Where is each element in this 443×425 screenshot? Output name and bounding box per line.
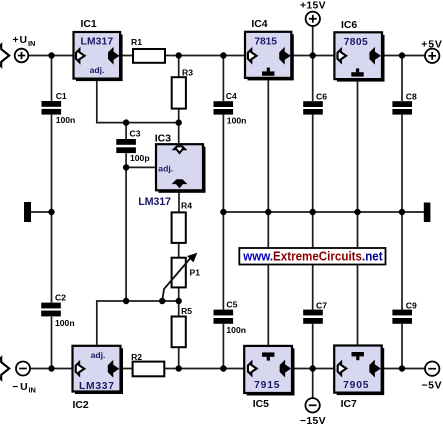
- junction -15V rail node: [310, 365, 316, 371]
- svg-text:7805: 7805: [344, 37, 368, 48]
- svg-text:+15V: +15V: [300, 1, 326, 12]
- junction P1 wiper node: [159, 298, 165, 304]
- svg-text:IC3: IC3: [155, 133, 171, 144]
- resistor R1: [133, 49, 165, 63]
- wire top rail IC6 to +5V: [382, 55, 425, 57]
- wire IC6-IC7 ground column: [357, 79, 359, 346]
- svg-text:R4: R4: [181, 201, 192, 211]
- capacitor C2: [41, 303, 61, 309]
- svg-text:IC2: IC2: [73, 400, 89, 411]
- wire R3 connect: [178, 56, 180, 78]
- svg-text:C5: C5: [226, 300, 237, 310]
- potentiometer P1: [172, 258, 186, 288]
- wire +15V/C6/C7/-15V column: [312, 26, 314, 101]
- svg-text:adj.: adj.: [90, 65, 105, 75]
- junction C8 / +5V node: [399, 52, 405, 58]
- junction +15V rail node: [310, 52, 316, 58]
- junction C8/C9 0V node: [399, 209, 405, 215]
- svg-text:C8: C8: [406, 91, 417, 101]
- IC3 input arrow: [174, 146, 185, 153]
- wire 0V rail: [223, 211, 424, 213]
- junction -U input node: [48, 365, 54, 371]
- junction C4/C5 0V node: [220, 209, 226, 215]
- svg-text:IN: IN: [28, 39, 35, 48]
- wire adj rail: [97, 301, 179, 346]
- wire P1 to R5: [178, 287, 180, 316]
- svg-text:IC6: IC6: [341, 20, 357, 31]
- terminal -UIN: [16, 362, 30, 376]
- junction P1 / R5 node: [176, 298, 182, 304]
- watermark box: [239, 248, 385, 265]
- wire R4 to P1: [178, 243, 180, 258]
- IC7 output arrow: [370, 362, 379, 375]
- junction C3 bottom / IC3 adj node: [123, 164, 129, 170]
- svg-text:C6: C6: [316, 91, 327, 101]
- regulator IC1 LM317: [76, 35, 123, 82]
- svg-text:C4: C4: [226, 91, 237, 101]
- svg-text:P1: P1: [190, 268, 201, 278]
- svg-text:100p: 100p: [130, 153, 150, 163]
- wire top rail IC4 to IC6: [291, 55, 335, 57]
- input arrow +U: [0, 45, 9, 67]
- svg-text:C7: C7: [316, 300, 327, 310]
- svg-text:100n: 100n: [227, 115, 247, 125]
- svg-text:100n: 100n: [226, 325, 246, 335]
- IC6 ground pin: [351, 72, 363, 76]
- capacitor C9: [392, 310, 412, 316]
- junction IC4/IC5 ground 0V node: [265, 209, 271, 215]
- terminal +UIN: [15, 49, 29, 63]
- svg-text:IC7: IC7: [341, 399, 357, 410]
- capacitor C8: [392, 101, 412, 107]
- wire bottom rail IC5 to IC7: [292, 368, 335, 370]
- svg-text:7905: 7905: [343, 380, 369, 391]
- wire left column: [51, 56, 53, 102]
- IC6 input arrow: [338, 49, 347, 62]
- IC6 output arrow: [371, 49, 380, 62]
- resistor R5: [172, 317, 186, 348]
- svg-text:LM317: LM317: [138, 196, 171, 208]
- IC2 input arrow: [76, 362, 85, 375]
- IC4 output arrow: [280, 49, 289, 62]
- svg-text:C9: C9: [406, 300, 417, 310]
- svg-text:−5V: −5V: [422, 381, 442, 392]
- junction C6/C7 0V node: [310, 209, 316, 215]
- svg-text:LM317: LM317: [81, 37, 114, 48]
- svg-text:IN: IN: [29, 386, 36, 395]
- IC1 output arrow: [109, 49, 118, 62]
- IC3 output arrow: [174, 180, 185, 187]
- svg-text:www.ExtremeCircuits.net: www.ExtremeCircuits.net: [242, 250, 383, 264]
- svg-text:+U: +U: [13, 35, 28, 46]
- svg-text:7815: 7815: [254, 37, 277, 48]
- capacitor C1: [42, 101, 62, 107]
- svg-text:C1: C1: [56, 91, 67, 101]
- wire bottom rail: [30, 368, 245, 370]
- terminal -15V: [305, 398, 319, 412]
- junction C4 top node: [220, 52, 226, 58]
- svg-text:LM337: LM337: [79, 381, 114, 392]
- junction IC1 adj / C3 node: [123, 119, 129, 125]
- capacitor C3: [116, 139, 136, 145]
- junction R5 bottom node: [176, 365, 182, 371]
- IC5 ground pin: [262, 352, 274, 356]
- svg-text:IC1: IC1: [81, 19, 97, 30]
- wire IC1 adj: [97, 79, 179, 123]
- svg-text:−15V: −15V: [300, 416, 326, 425]
- junction C9 / -5V node: [399, 365, 405, 371]
- regulator IC3 LM317: [159, 147, 206, 193]
- IC4 input arrow: [248, 49, 257, 62]
- wire C8/C9 column: [401, 56, 403, 102]
- IC1 input arrow: [76, 49, 85, 62]
- capacitor C5: [214, 310, 234, 316]
- IC4 ground pin: [262, 71, 274, 75]
- svg-text:R1: R1: [131, 37, 142, 47]
- wire IC3 out to R4: [178, 190, 180, 212]
- IC7 input arrow: [338, 362, 347, 375]
- capacitor C4: [214, 101, 234, 107]
- svg-text:R3: R3: [182, 67, 193, 77]
- svg-text:adj.: adj.: [158, 163, 173, 173]
- svg-text:IC4: IC4: [251, 19, 267, 30]
- junction C5 bottom node: [220, 365, 226, 371]
- svg-text:7915: 7915: [254, 380, 280, 391]
- wire bottom rail IC7 to -5V: [381, 368, 425, 370]
- resistor R3: [172, 77, 186, 108]
- terminal -5V: [425, 362, 439, 376]
- regulator IC2 LM337: [75, 348, 123, 394]
- capacitor C6: [303, 101, 323, 107]
- resistor R4: [172, 212, 186, 243]
- svg-text:100n: 100n: [56, 115, 76, 125]
- junction +U input node: [48, 52, 54, 58]
- regulator IC7 7905: [337, 348, 385, 395]
- IC2 output arrow: [109, 362, 118, 375]
- regulator IC4 7815: [248, 34, 294, 80]
- svg-text:C3: C3: [130, 128, 141, 138]
- wire R5 to bottom rail: [178, 347, 180, 368]
- wire IC4-IC5 ground column: [267, 78, 269, 346]
- regulator IC6 7805: [337, 35, 385, 82]
- svg-text:R5: R5: [181, 306, 192, 316]
- junction R3 bottom / IC3 input node: [176, 119, 182, 125]
- svg-text:IC5: IC5: [253, 399, 269, 410]
- junction 0V left tap node: [48, 209, 54, 215]
- wire C4/C5 column: [222, 56, 224, 102]
- P1 wiper arrowhead: [187, 253, 197, 263]
- junction IC6/IC7 ground 0V node: [354, 209, 360, 215]
- junction R1 output / R3 top node: [176, 52, 182, 58]
- regulator IC5 7915: [247, 348, 295, 395]
- svg-text:C2: C2: [55, 292, 66, 302]
- wire C3 column: [125, 123, 127, 139]
- IC5 output arrow: [281, 362, 290, 375]
- resistor R2: [133, 362, 165, 377]
- svg-text:adj.: adj.: [91, 350, 106, 360]
- ground bar right (0V connector): [424, 203, 431, 223]
- svg-text:R2: R2: [131, 352, 142, 362]
- P1 wiper wire: [162, 258, 190, 301]
- svg-text:100n: 100n: [55, 318, 75, 328]
- wire IC3 adj: [126, 166, 156, 168]
- junction adj rail / C3 column node: [123, 298, 129, 304]
- svg-text:−U: −U: [12, 382, 28, 393]
- wire top rail: [28, 55, 245, 57]
- IC7 ground pin: [352, 352, 364, 356]
- ground bar left (0V connector): [24, 202, 31, 222]
- input arrow -U: [0, 358, 9, 380]
- IC5 input arrow: [248, 362, 257, 375]
- capacitor C7: [303, 310, 323, 316]
